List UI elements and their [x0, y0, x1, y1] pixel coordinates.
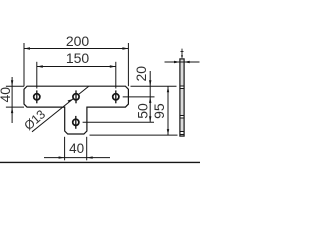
dim 95 line	[167, 86, 169, 135]
dim 200 extension left	[23, 43, 25, 86]
svg-text:95: 95	[151, 103, 167, 119]
hole row centerline right	[119, 96, 120, 98]
bottom border	[0, 161, 200, 163]
hole left	[34, 94, 40, 100]
dim 20 / dim 50 shared line	[149, 71, 151, 122]
stem hole centerline	[83, 121, 154, 123]
hole right	[113, 94, 119, 100]
svg-text:20: 20	[133, 66, 149, 82]
dim 200 extension right	[127, 43, 129, 86]
svg-text:Ø13: Ø13	[22, 107, 49, 133]
hole center	[73, 94, 79, 100]
dim 40 bottom line	[44, 157, 110, 159]
dim 40 left extensions	[6, 85, 24, 87]
svg-text:200: 200	[66, 33, 90, 49]
dim 40 left line	[11, 77, 13, 123]
dim 200 line	[24, 48, 128, 50]
dim 150 extension right	[115, 62, 117, 89]
stem bottom extension	[90, 134, 178, 136]
svg-text:50: 50	[134, 103, 150, 119]
dim 40 bottom extensions	[64, 137, 66, 161]
leader dia13	[32, 86, 89, 131]
dim 150 line	[37, 66, 116, 68]
hole stem	[73, 119, 79, 125]
thickness dim	[165, 61, 200, 63]
svg-text:40: 40	[69, 141, 84, 156]
side view strip	[180, 59, 184, 136]
top right extension (plate top edge)	[131, 85, 177, 87]
svg-text:40: 40	[0, 87, 13, 103]
dim 150 extension left	[36, 62, 38, 89]
T-plate outline	[24, 86, 128, 134]
svg-text:150: 150	[66, 50, 90, 66]
